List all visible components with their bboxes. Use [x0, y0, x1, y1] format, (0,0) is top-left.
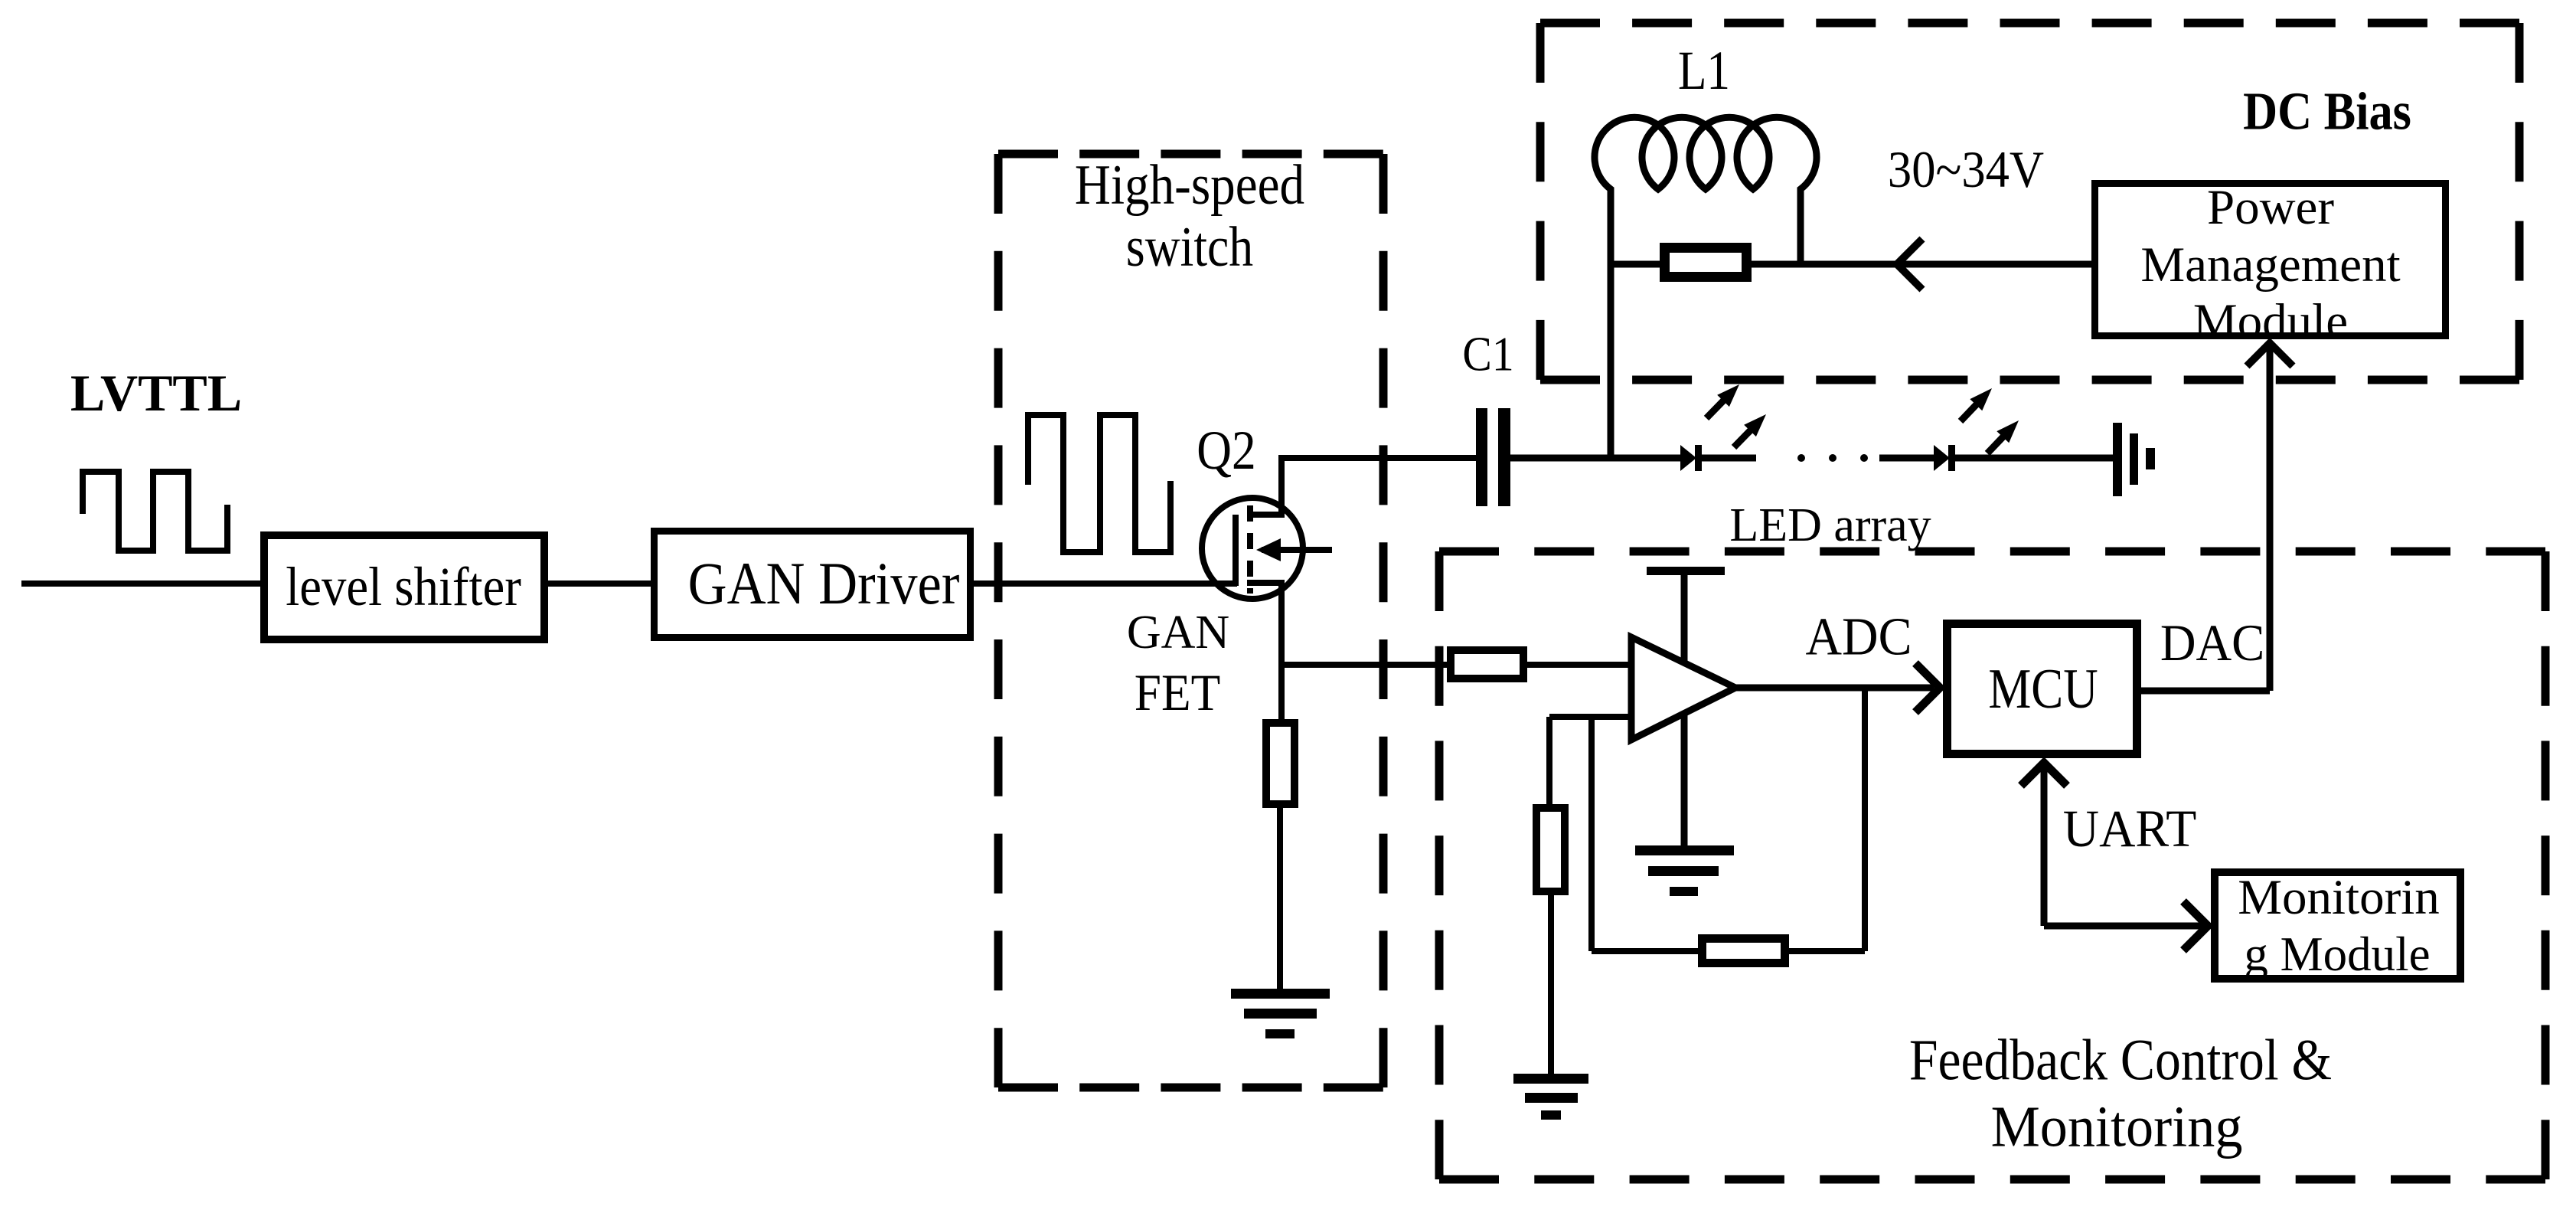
svg-text:C1: C1: [1462, 328, 1513, 381]
svg-text:Power: Power: [2207, 180, 2334, 235]
svg-text:MCU: MCU: [1988, 657, 2098, 720]
svg-text:Q2: Q2: [1197, 420, 1255, 481]
svg-text:GAN Driver: GAN Driver: [688, 551, 960, 617]
svg-text:DAC: DAC: [2160, 614, 2264, 672]
svg-text:Management: Management: [2140, 237, 2400, 293]
svg-text:High-speed: High-speed: [1075, 154, 1304, 217]
svg-text:ADC: ADC: [1806, 607, 1912, 666]
svg-text:g Module: g Module: [2244, 927, 2430, 981]
svg-text:Monitorin: Monitorin: [2238, 870, 2440, 925]
svg-text:FET: FET: [1135, 664, 1220, 722]
svg-text:level shifter: level shifter: [286, 556, 521, 617]
svg-text:switch: switch: [1126, 215, 1253, 277]
svg-text:L1: L1: [1678, 41, 1730, 102]
svg-text:30~34V: 30~34V: [1888, 141, 2044, 198]
svg-text:DC Bias: DC Bias: [2243, 82, 2411, 141]
svg-text:GAN: GAN: [1127, 607, 1229, 659]
svg-text:LED array: LED array: [1729, 499, 1931, 551]
svg-text:Feedback Control &: Feedback Control &: [1909, 1028, 2332, 1093]
svg-text:UART: UART: [2063, 800, 2196, 858]
svg-text:Monitoring: Monitoring: [1991, 1095, 2243, 1159]
svg-text:LVTTL: LVTTL: [70, 364, 242, 422]
